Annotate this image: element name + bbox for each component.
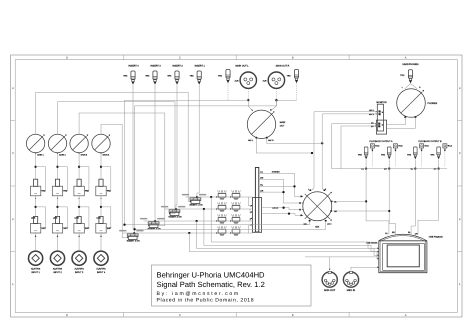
wire: playback 4/R jack drops xyxy=(439,152,445,168)
svg-text:L: L xyxy=(308,188,309,191)
wire: insert 4 jack wire xyxy=(133,85,134,233)
wire: playback 3/L jack drops xyxy=(415,152,421,168)
combo input connector XLR/TRS INPUT 4 xyxy=(94,251,108,274)
node: mono R xyxy=(288,212,290,214)
wire: mix pot 2/R output xyxy=(332,210,389,212)
wire: gain 4 feed bridge xyxy=(101,124,129,238)
svg-text:INST: INST xyxy=(85,227,90,230)
adc chip channel 4 xyxy=(230,226,240,236)
svg-text:3: 3 xyxy=(12,152,14,155)
node: insert 2 jack node xyxy=(175,208,177,210)
wire+label: monitor 2/R input xyxy=(341,125,376,169)
wire: midi in to USB xyxy=(351,267,378,270)
playback TRS jack 1/L xyxy=(358,147,368,159)
wire: stereo send 2/R to mix xyxy=(259,179,302,203)
svg-text:HEADPHONES: HEADPHONES xyxy=(402,63,419,66)
combo input connector XLR/TRS INPUT 3 xyxy=(72,251,86,274)
svg-text:L: L xyxy=(252,108,253,111)
svg-text:MIX L: MIX L xyxy=(248,139,253,142)
wire: gain 2 pot to pad switch xyxy=(57,153,59,180)
playback TRS jack 4/R xyxy=(430,147,440,159)
wire: 4/R down to USB xyxy=(418,169,439,235)
wire: stereo send 4/R joins xyxy=(259,191,284,193)
bus stereo send labels xyxy=(260,171,280,193)
svg-text:TRS: TRS xyxy=(400,74,405,77)
wire: gain 3 pot to pad switch xyxy=(78,153,80,180)
svg-text:Signal Path Schematic, Rev. 1.: Signal Path Schematic, Rev. 1.2 xyxy=(157,280,265,289)
bus input pins xyxy=(250,205,252,227)
USB send input arrows xyxy=(377,247,379,268)
wire: channel 1 row xyxy=(185,196,252,198)
svg-text:MIX: MIX xyxy=(315,225,319,228)
wire: insert 3 jack wire xyxy=(154,85,156,221)
wire: pad 2 bypass loop xyxy=(58,167,68,191)
svg-text:TRS: TRS xyxy=(123,75,128,78)
switch INSERT 3 ON xyxy=(140,218,164,231)
switch LINE/INST 4 xyxy=(96,216,112,233)
svg-text:3/L: 3/L xyxy=(408,231,411,234)
svg-text:C: C xyxy=(179,57,181,60)
node: main R feed tap xyxy=(133,228,135,230)
node: pad 1 out xyxy=(34,206,36,208)
preamp chip channel 4 xyxy=(216,226,226,236)
switch PAD 1 xyxy=(30,179,46,199)
svg-text:XLR: XLR xyxy=(263,80,267,83)
wire: main out L drops (dashed) xyxy=(228,83,248,100)
switch PAD 4 xyxy=(96,179,112,199)
svg-text:1/L: 1/L xyxy=(385,232,388,235)
wire: pad 4 bypass loop xyxy=(101,167,111,191)
wire: headphone jack to phones pot xyxy=(402,84,421,90)
switch PAD 3 xyxy=(74,179,90,199)
wire: main out L feed xyxy=(125,100,249,224)
combo input connector XLR/TRS INPUT 1 xyxy=(28,251,42,274)
node: MIX L junction xyxy=(311,152,313,154)
node: gain 1 bottom xyxy=(34,166,36,168)
potentiometer GAIN 4 xyxy=(92,134,111,157)
svg-text:2: 2 xyxy=(459,218,461,221)
wire: insert 1 jack wire xyxy=(197,85,199,197)
wire: pad 1 to line/inst switch xyxy=(35,195,37,216)
node: insert 3 jack node xyxy=(154,220,156,222)
svg-text:PLAYBACK OUTPUT A: PLAYBACK OUTPUT A xyxy=(370,140,393,143)
playback TRS jack 2/R xyxy=(381,147,391,159)
svg-text:TRS: TRS xyxy=(190,75,195,78)
svg-text:2/R: 2/R xyxy=(334,210,337,213)
node: main L feed tap xyxy=(123,224,125,226)
svg-text:C: C xyxy=(179,314,181,317)
wire: main out R drops (dashed) xyxy=(276,83,296,100)
svg-text:INPUT 3: INPUT 3 xyxy=(75,271,84,274)
svg-text:XLR/TRS: XLR/TRS xyxy=(96,267,106,270)
svg-text:GAIN 3: GAIN 3 xyxy=(81,153,88,156)
svg-text:INSERT 2 ON: INSERT 2 ON xyxy=(169,216,182,219)
switch INSERT 1 ON xyxy=(182,194,206,207)
headphones TRS jack xyxy=(400,63,419,84)
svg-text:INSERT 4: INSERT 4 xyxy=(128,65,139,68)
svg-text:RCA: RCA xyxy=(398,145,403,148)
svg-text:Behringer U-Phoria UMC404HD: Behringer U-Phoria UMC404HD xyxy=(157,271,266,280)
svg-text:RCA: RCA xyxy=(448,145,453,148)
adc chip channel 3 xyxy=(230,214,240,224)
insert jack J3 "INSERT 3" TRS xyxy=(145,65,161,85)
svg-text:3: 3 xyxy=(459,152,461,155)
preamp chip channel 1 xyxy=(216,190,226,200)
wire: inst 2 bypass loop xyxy=(58,207,68,228)
node: playback 1/L xyxy=(365,167,367,169)
insert jack J4 "INSERT 4" TRS xyxy=(123,65,139,85)
wire: main out R feed xyxy=(135,100,277,229)
svg-text:PHONES: PHONES xyxy=(428,102,438,105)
svg-text:USB Playback: USB Playback xyxy=(429,236,444,239)
wire: gain 4 pot to pad switch xyxy=(100,153,102,180)
svg-text:1: 1 xyxy=(250,205,251,208)
potentiometer MAIN OUT xyxy=(247,108,285,142)
svg-text:RCA: RCA xyxy=(425,145,430,148)
svg-text:PAD: PAD xyxy=(85,190,89,193)
insert jack J1 "INSERT 1" TRS xyxy=(190,65,206,85)
main out R XLR connector xyxy=(263,65,290,89)
wire: MIX R from main pot down to bus xyxy=(267,139,322,144)
wire: channel 3 row xyxy=(144,220,253,222)
svg-text:TRS: TRS xyxy=(218,75,223,78)
wire: MIX R vertical to mix pot xyxy=(322,114,324,191)
svg-text:MONITOR: MONITOR xyxy=(376,101,387,104)
svg-text:MAIN OUT R: MAIN OUT R xyxy=(276,65,290,68)
svg-text:MONO: MONO xyxy=(272,207,278,210)
svg-text:B: B xyxy=(292,314,294,317)
wire: usb send 3 xyxy=(197,221,378,255)
svg-text:PLAYBACK OUTPUT B: PLAYBACK OUTPUT B xyxy=(418,140,442,143)
svg-text:4/R: 4/R xyxy=(433,168,437,171)
wire: mono L to mix xyxy=(262,208,302,210)
node: mix bottom L xyxy=(309,220,311,222)
potentiometer GAIN 1 xyxy=(26,134,45,157)
wire: inst 3 bypass loop xyxy=(79,207,89,228)
node: usb send tap 2 xyxy=(203,208,205,210)
mix pot input arrows xyxy=(302,196,303,216)
svg-text:MAIN: MAIN xyxy=(280,121,286,124)
labels USB playback channels xyxy=(385,231,418,235)
svg-text:GAIN 2: GAIN 2 xyxy=(59,153,66,156)
svg-text:TRS: TRS xyxy=(430,153,435,156)
svg-text:TRS: TRS xyxy=(167,75,172,78)
svg-text:4: 4 xyxy=(459,87,461,90)
svg-text:2/R: 2/R xyxy=(392,231,396,234)
svg-text:INST: INST xyxy=(42,227,47,230)
playback RCA jack 3/L xyxy=(420,144,430,152)
wire+label: monitor MIX L input xyxy=(314,109,377,112)
svg-text:GAIN 1: GAIN 1 xyxy=(37,153,44,156)
potentiometer MIX (dual) xyxy=(299,188,337,228)
svg-text:4/R: 4/R xyxy=(415,233,419,236)
svg-text:MIX R: MIX R xyxy=(268,139,274,142)
wire: 3/L down to USB xyxy=(411,169,415,235)
wire: row1 to bus pin1 xyxy=(249,197,253,206)
node: insert 1 jack node xyxy=(196,196,198,198)
wire: input jack 4 to switch xyxy=(100,232,102,250)
svg-text:INSERT 3: INSERT 3 xyxy=(150,65,161,68)
wire: usb send 2 xyxy=(204,209,378,252)
wire: input jack 1 to switch xyxy=(35,232,37,250)
node: 4/R join xyxy=(282,191,284,193)
svg-text:2/R: 2/R xyxy=(371,125,375,128)
svg-text:INST: INST xyxy=(107,227,112,230)
insert jack J2 "INSERT 2" TRS xyxy=(167,65,183,85)
playback RCA jack 4/R xyxy=(443,144,453,152)
main out L XLR connector xyxy=(235,72,257,88)
wire: pad 2 to line/inst switch xyxy=(57,195,59,216)
wire: playback distribution row xyxy=(332,168,447,170)
node: playback 3/L xyxy=(414,167,416,169)
preamp chip channel 2 xyxy=(216,202,226,212)
svg-text:TRS: TRS xyxy=(145,75,150,78)
svg-text:INSERT 2: INSERT 2 xyxy=(172,65,183,68)
svg-text:PAD: PAD xyxy=(107,190,111,193)
node: pad 4 out xyxy=(100,206,102,208)
wire: gain 1 feed bridge xyxy=(36,92,192,202)
wire: main L to pot xyxy=(248,100,253,111)
main out R TRS jack xyxy=(287,70,299,84)
switch PAD 2 xyxy=(52,179,68,199)
wire: row2 to bus pin2 xyxy=(250,209,252,212)
svg-text:MAIN OUT L: MAIN OUT L xyxy=(235,65,249,68)
USB interface box xyxy=(379,234,427,272)
wire+label: monitor 1/L input xyxy=(332,121,377,168)
svg-text:2: 2 xyxy=(12,218,14,221)
title block xyxy=(152,265,312,306)
svg-text:XLR/TRS: XLR/TRS xyxy=(31,267,41,270)
svg-text:PAD: PAD xyxy=(64,190,68,193)
wire+label: monitor MIX R input xyxy=(322,113,377,116)
wire: usb send 1 xyxy=(211,197,378,248)
MIDI OUT DIN connector xyxy=(322,271,337,292)
svg-text:PAD: PAD xyxy=(42,190,46,193)
svg-text:XLR: XLR xyxy=(235,80,239,83)
playback RCA jack 2/R xyxy=(394,144,404,152)
svg-text:R: R xyxy=(325,188,327,191)
wire: playback 2/R jack drops xyxy=(389,152,395,168)
wire: insert 2 jack wire xyxy=(176,85,177,209)
node: gain 2 bottom xyxy=(56,166,58,168)
svg-text:RCA: RCA xyxy=(375,145,380,148)
svg-text:B: B xyxy=(292,57,294,60)
node: insert 4 jack node xyxy=(133,232,135,234)
node: mix bottom R xyxy=(325,220,327,222)
svg-text:INSERT 4 ON: INSERT 4 ON xyxy=(127,240,140,243)
wire: gain 1 pot to pad switch xyxy=(35,153,37,180)
wire: midi out feed xyxy=(305,257,379,270)
wire: 2/R down to USB and mix tap xyxy=(389,169,395,235)
svg-text:By: iam@mcnster.com: By: iam@mcnster.com xyxy=(157,291,240,297)
svg-text:MIDI IN: MIDI IN xyxy=(347,289,356,292)
playback TRS jack 3/L xyxy=(407,147,417,159)
playback RCA jack 1/L xyxy=(370,144,380,152)
wire: pad 3 to line/inst switch xyxy=(78,195,80,216)
svg-text:4: 4 xyxy=(250,224,251,227)
switch INSERT 2 ON xyxy=(161,206,185,219)
svg-text:TRS: TRS xyxy=(381,153,386,156)
wire: gain 2 feed bridge xyxy=(58,102,176,215)
svg-text:XLR/TRS: XLR/TRS xyxy=(74,267,84,270)
wire: row4 to bus pin4 xyxy=(249,225,253,233)
wire: pad 4 to line/inst switch xyxy=(100,195,102,216)
wire: input jack 3 to switch xyxy=(78,232,80,250)
svg-text:INPUT 1: INPUT 1 xyxy=(31,271,40,274)
wire: MIX L vertical to mix pot xyxy=(311,112,314,191)
wire: playback 1/L jack drops xyxy=(366,152,372,168)
svg-text:TRS: TRS xyxy=(407,153,412,156)
svg-text:1/L: 1/L xyxy=(361,168,364,171)
border frame xyxy=(11,55,463,317)
svg-text:TRS: TRS xyxy=(358,153,363,156)
svg-text:A: A xyxy=(405,57,407,60)
svg-text:R: R xyxy=(419,86,421,89)
node: playback 2/R xyxy=(388,167,390,169)
svg-text:A: A xyxy=(405,314,407,317)
wire: main R to pot xyxy=(270,100,276,111)
wire: channel 2 row xyxy=(165,208,253,210)
node: usb send tap 4 xyxy=(188,232,190,234)
wire: row3 to bus pin3 xyxy=(250,218,252,221)
wire: MIX L from main pot down to bus xyxy=(256,139,312,154)
adc chip channel 1 xyxy=(230,190,240,200)
svg-text:Placed in the Public Domain, 2: Placed in the Public Domain, 2018 xyxy=(157,298,255,304)
node: usb send tap 1 xyxy=(210,196,212,198)
switch LINE/INST 3 xyxy=(74,216,90,233)
switch LINE/INST 1 xyxy=(30,216,46,233)
monitor select switch "MONITOR" xyxy=(375,101,387,134)
node: mono L xyxy=(282,207,284,209)
node: 2/R mix tap xyxy=(388,210,390,212)
wire: pad 3 bypass loop xyxy=(79,167,89,191)
wire: mix L out loop left xyxy=(125,221,310,225)
node: 1/L mix tap xyxy=(365,200,367,202)
svg-text:TRS: TRS xyxy=(287,75,292,78)
node: main L junction xyxy=(247,99,249,101)
wire: input jack 2 to switch xyxy=(57,232,59,250)
preamp chip channel 3 xyxy=(216,214,226,224)
node: usb send tap 3 xyxy=(195,220,197,222)
potentiometer PHONES xyxy=(397,89,438,118)
switch LINE/INST 2 xyxy=(52,216,68,233)
svg-text:MIX R: MIX R xyxy=(327,222,332,225)
wire: 1/L down to USB and mix tap xyxy=(366,169,389,235)
potentiometer GAIN 3 xyxy=(70,134,89,157)
wire: usb send 4 xyxy=(189,233,377,259)
node: 3/L join xyxy=(293,185,295,187)
node: MIX R junction xyxy=(321,142,323,144)
svg-text:3/L: 3/L xyxy=(410,168,413,171)
svg-text:1/L: 1/L xyxy=(334,201,337,204)
node: playback 4/R xyxy=(437,167,439,169)
svg-text:INSERT 1: INSERT 1 xyxy=(195,65,206,68)
svg-text:D: D xyxy=(66,57,68,60)
svg-text:XLR/TRS: XLR/TRS xyxy=(53,267,63,270)
svg-text:INSERT 1 ON: INSERT 1 ON xyxy=(189,204,202,207)
adc chip channel 2 xyxy=(230,202,240,212)
svg-text:4: 4 xyxy=(12,87,14,90)
node: pad 2 out xyxy=(56,206,58,208)
switch INSERT 4 ON xyxy=(119,230,143,243)
svg-text:OUT: OUT xyxy=(280,124,285,127)
combo input connector XLR/TRS INPUT 2 xyxy=(50,251,64,274)
potentiometer GAIN 2 xyxy=(48,134,67,157)
svg-text:MIDI OUT: MIDI OUT xyxy=(324,289,336,292)
svg-text:L: L xyxy=(402,86,403,89)
node: pad 3 out xyxy=(78,206,80,208)
wire: inst 1 bypass loop xyxy=(36,207,46,228)
wire: pad 1 bypass loop xyxy=(36,167,46,191)
svg-text:INPUT 4: INPUT 4 xyxy=(97,271,106,274)
wire: inst 4 bypass loop xyxy=(101,207,111,228)
wire: mono R to mix xyxy=(262,214,302,216)
wire: stereo send 1/L to mix xyxy=(259,173,302,196)
MIDI IN DIN connector xyxy=(343,271,358,292)
svg-text:1: 1 xyxy=(459,283,461,286)
wire: stereo send 3/L joins xyxy=(259,185,295,187)
mix bus bar xyxy=(252,168,261,233)
svg-text:MIX R: MIX R xyxy=(369,113,375,116)
node: main R junction xyxy=(275,99,277,101)
svg-text:2/R: 2/R xyxy=(384,168,388,171)
wire: phones R to monitor switch xyxy=(387,117,416,128)
svg-text:GAIN 4: GAIN 4 xyxy=(103,153,110,156)
svg-text:INPUT 2: INPUT 2 xyxy=(53,271,62,274)
node: gain 4 bottom xyxy=(100,166,102,168)
svg-text:1: 1 xyxy=(12,283,14,286)
svg-text:D: D xyxy=(66,314,68,317)
svg-text:3: 3 xyxy=(250,217,251,220)
svg-text:INST: INST xyxy=(64,227,69,230)
node: gain 3 bottom xyxy=(78,166,80,168)
node: phones pot bottom pins xyxy=(404,116,406,118)
main out L TRS jack xyxy=(218,65,249,84)
wire: gain 3 feed bridge xyxy=(79,113,165,226)
wire: mix R out loop left xyxy=(135,221,326,230)
wire: phones L to monitor switch xyxy=(387,117,406,125)
wire: mix pot L/L output xyxy=(332,200,366,202)
wire: channel 4 row xyxy=(123,232,253,234)
